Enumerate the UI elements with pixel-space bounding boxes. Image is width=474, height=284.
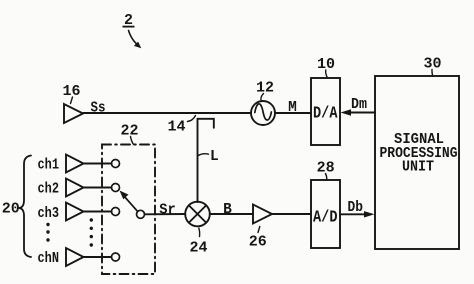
- leader tick 10: [326, 70, 328, 77]
- svg-text:14: 14: [167, 119, 185, 136]
- wire M (oscillator to D/A): [275, 112, 311, 114]
- leader tick 28: [326, 174, 327, 180]
- amplifier ch3: [66, 203, 84, 221]
- wire ch3: [84, 211, 112, 213]
- svg-text:ch3: ch3: [38, 206, 60, 222]
- leader tick 22: [131, 137, 134, 145]
- svg-text:22: 22: [120, 123, 138, 140]
- svg-text:M: M: [288, 100, 297, 116]
- svg-text:D/A: D/A: [313, 105, 338, 124]
- svg-text:UNIT: UNIT: [402, 160, 434, 176]
- wire Db arrow (A/D to SPU): [340, 213, 366, 215]
- amplifier chN: [66, 248, 84, 266]
- oscillator 12: [251, 101, 275, 125]
- svg-text:12: 12: [256, 80, 274, 97]
- svg-text:ch2: ch2: [38, 181, 60, 197]
- svg-text:Dm: Dm: [351, 97, 367, 113]
- leader tick 26: [258, 227, 260, 233]
- figure number 2: [123, 12, 135, 29]
- switch box 22 (dash-dot): [102, 145, 155, 275]
- amplifier ch2: [66, 179, 84, 197]
- coupler 14 (tap bracket): [198, 119, 214, 202]
- leader tick 14: [188, 116, 196, 122]
- wire Dm arrow (SPU to D/A): [349, 112, 375, 114]
- wire Sr (switch to mixer): [145, 213, 185, 215]
- ellipsis dots (label column): [46, 223, 49, 242]
- svg-text:ch1: ch1: [38, 158, 60, 174]
- mixer 24: [185, 202, 210, 227]
- svg-text:26: 26: [249, 234, 267, 251]
- contact chN: [112, 253, 120, 261]
- wire ch1: [84, 163, 112, 165]
- D/A converter 10: [311, 78, 340, 145]
- svg-text:20: 20: [2, 201, 20, 218]
- svg-text:Ss: Ss: [91, 100, 106, 116]
- switch arm with arrow: [124, 196, 138, 212]
- amplifier ch1: [66, 155, 84, 173]
- svg-text:chN: chN: [38, 251, 60, 267]
- ellipsis dots (amplifier output column): [90, 218, 93, 246]
- svg-text:L: L: [210, 149, 219, 165]
- leader tick L: [198, 154, 208, 156]
- leader tick 12: [261, 94, 264, 101]
- contact ch2: [112, 184, 120, 192]
- brace 20: [19, 156, 32, 258]
- A/D converter 28: [311, 180, 340, 248]
- svg-text:24: 24: [189, 240, 207, 257]
- wire B (mixer to amp 26): [210, 213, 253, 215]
- switch pivot contact: [137, 210, 145, 218]
- svg-text:16: 16: [62, 83, 80, 100]
- wire ch2: [84, 187, 112, 189]
- wire chN: [84, 256, 112, 258]
- leader tick 16: [71, 97, 73, 104]
- leader arrow for figure 2: [129, 31, 137, 44]
- svg-text:Sr: Sr: [159, 203, 176, 219]
- svg-text:B: B: [223, 202, 232, 218]
- leader tick 30: [431, 70, 434, 76]
- svg-text:A/D: A/D: [313, 209, 338, 228]
- contact ch3: [112, 208, 120, 216]
- contact ch1: [112, 160, 120, 168]
- signal processing unit 30: [375, 76, 459, 249]
- svg-text:Db: Db: [348, 200, 364, 216]
- wire Ss (amp 16 to oscillator): [83, 112, 251, 114]
- amplifier 16: [64, 104, 83, 123]
- wire amp 26 to A/D: [272, 213, 311, 215]
- amplifier 26: [253, 205, 272, 224]
- leader tick 24: [198, 228, 201, 237]
